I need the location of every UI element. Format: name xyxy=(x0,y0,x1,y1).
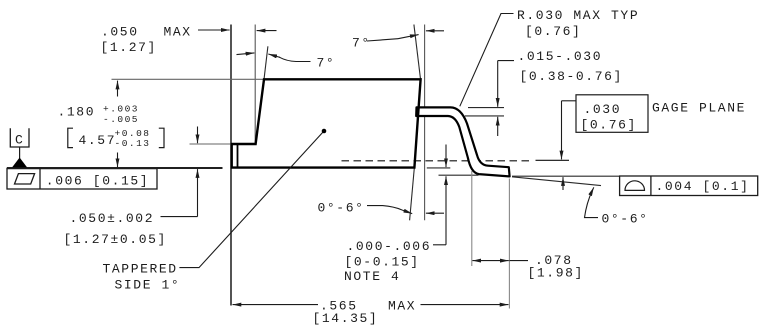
extension line: tab top extended left y=144 xyxy=(190,143,232,145)
svg-text:4.57: 4.57 xyxy=(79,133,117,148)
node: leader dot inside body xyxy=(322,129,327,134)
extension line: vertical reference x=424.6 xyxy=(424,25,426,221)
svg-text:7°: 7° xyxy=(352,36,371,51)
dashed line: gage plane / seating reference xyxy=(342,160,531,162)
feature control frame: profile .004 [0.1] xyxy=(620,176,758,196)
svg-text:R.030 MAX TYP: R.030 MAX TYP xyxy=(517,8,639,23)
svg-text:[0.76]: [0.76] xyxy=(581,117,637,132)
svg-text:7°: 7° xyxy=(317,56,336,71)
extension line: foot right x=509.4 xyxy=(508,179,510,309)
gage plane solid tick line xyxy=(536,159,570,161)
dimension .078 [1.98] xyxy=(472,260,490,262)
svg-text:[14.35]: [14.35] xyxy=(313,311,379,326)
datum plane line (body bottom extended left) xyxy=(7,167,223,169)
extension line: top plane extended left y=79.3 xyxy=(112,78,264,80)
svg-text:TAPPERED: TAPPERED xyxy=(103,261,178,276)
svg-text:MAX: MAX xyxy=(388,298,416,313)
svg-text:0°-6°: 0°-6° xyxy=(318,200,365,215)
svg-text:+.003: +.003 xyxy=(103,103,139,114)
extension lines: lead thickness at .015-.030 xyxy=(468,107,504,109)
extension line: foot bottom extended left xyxy=(439,174,479,176)
svg-text:MAX: MAX xyxy=(164,25,192,40)
extension line: foot bottom sloped 0-6 deg line xyxy=(512,177,601,186)
package body outline xyxy=(232,79,421,167)
svg-text:[1.27]: [1.27] xyxy=(101,40,157,55)
extension line: tab right edge vertical x=255.2 xyxy=(254,25,256,144)
extension line: left body slant above corner xyxy=(264,46,268,79)
svg-text:0°-6°: 0°-6° xyxy=(602,211,649,226)
svg-text:[1.27±0.05]: [1.27±0.05] xyxy=(64,232,167,247)
svg-text:.050: .050 xyxy=(101,25,139,40)
svg-text:.050±.002: .050±.002 xyxy=(70,211,155,226)
svg-text:.000-.006: .000-.006 xyxy=(347,239,432,254)
datum C symbol xyxy=(10,128,29,147)
svg-text:-.005: -.005 xyxy=(103,114,139,125)
dimension 7 deg left xyxy=(237,53,255,55)
svg-text:.006 [0.15]: .006 [0.15] xyxy=(46,173,149,188)
svg-text:[0-0.15]: [0-0.15] xyxy=(345,254,420,269)
extension line: right body slant below body (0-6 deg) xyxy=(410,168,415,220)
extension line: foot left x=471.8 for .078 xyxy=(471,171,473,266)
tab inner line (lead end inside terminal) xyxy=(237,145,239,167)
svg-text:-0.13: -0.13 xyxy=(115,138,151,149)
svg-text:[0.76]: [0.76] xyxy=(525,24,581,39)
svg-text:[1.98]: [1.98] xyxy=(528,266,584,281)
svg-text:.015-.030: .015-.030 xyxy=(518,49,603,64)
svg-text:SIDE 1°: SIDE 1° xyxy=(115,277,181,292)
svg-text:NOTE 4: NOTE 4 xyxy=(344,269,400,284)
svg-text:[0.1]: [0.1] xyxy=(703,179,750,194)
feature control frame: flatness .006 [0.15] xyxy=(7,169,157,189)
extension line: foot bottom plane extended right (horizontal) xyxy=(512,175,620,177)
extension line: right body slant above corner (7 deg) xyxy=(414,25,421,80)
gage plane box .030 [0.76] xyxy=(576,95,648,133)
extension line: tab left edge vertical x=231 xyxy=(230,25,232,306)
svg-text:GAGE PLANE: GAGE PLANE xyxy=(652,100,746,115)
svg-text:.180: .180 xyxy=(58,105,96,120)
svg-text:[0.38-0.76]: [0.38-0.76] xyxy=(520,69,623,84)
lead (gull wing) xyxy=(416,107,509,176)
svg-text:.004: .004 xyxy=(656,179,694,194)
extension line: body bottom extended right xyxy=(427,167,451,169)
svg-text:.030: .030 xyxy=(584,102,622,117)
svg-text:C: C xyxy=(15,133,24,148)
